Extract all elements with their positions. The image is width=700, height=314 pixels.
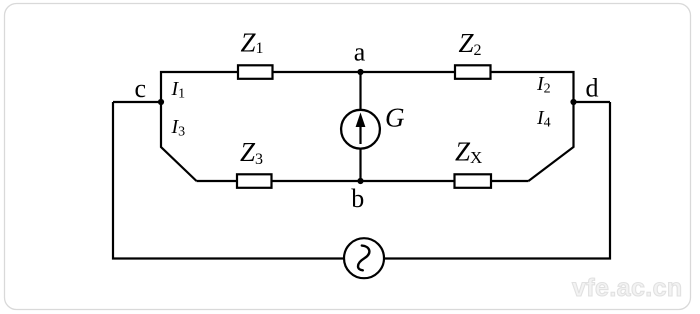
wire: outer source loop c-d via bottom — [113, 102, 610, 259]
wire: node d stub to right outer branch — [574, 101, 611, 103]
node c junction dot — [158, 99, 164, 105]
node b junction dot — [357, 178, 363, 184]
node a junction dot — [357, 69, 363, 75]
impedance Z3 — [237, 174, 272, 188]
node d junction dot — [570, 99, 576, 105]
wire: node c stub to left outer branch — [113, 101, 161, 103]
galvanometer G — [341, 110, 380, 149]
impedance ZX — [455, 174, 492, 188]
wire: left lower branch from node c to bottom bus — [161, 102, 197, 181]
impedance Z2 — [455, 65, 491, 79]
AC source — [344, 238, 384, 278]
wire: top bus from node c corner to node d corner — [161, 72, 574, 102]
wire: right lower branch from bottom bus to node d — [529, 102, 574, 181]
svg-text:vfe.ac.cn: vfe.ac.cn — [572, 274, 683, 302]
svg-text:a: a — [354, 38, 366, 67]
wire: galvanometer bridge branch from node a to node b — [359, 72, 361, 181]
svg-text:c: c — [135, 74, 147, 103]
svg-text:d: d — [586, 74, 599, 103]
impedance Z1 — [238, 65, 273, 79]
svg-text:G: G — [385, 103, 405, 133]
wire: bottom bus from left diagonal to right diagonal — [197, 180, 529, 182]
svg-text:b: b — [351, 184, 364, 213]
